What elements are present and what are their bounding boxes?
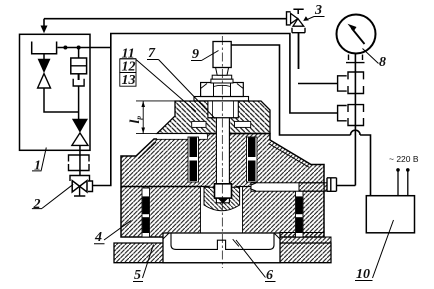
side port bolt hatched section [299, 183, 327, 191]
check valve right (filled+open triangles) [72, 119, 88, 133]
seat collar (hatched) [204, 187, 240, 211]
wire to pump [78, 48, 80, 59]
node dot B [77, 46, 81, 50]
nut top chamfer arcs [201, 84, 244, 89]
left outer seal channel [142, 188, 150, 237]
vent valve 3 lower bracket [292, 28, 305, 33]
right outer seal rings (black) [296, 196, 303, 214]
vent valve 3 left bracket [287, 12, 291, 25]
hex nut [201, 83, 244, 97]
gauge needle [352, 28, 365, 44]
press base plate 5 (hatched) [114, 243, 331, 263]
gap under cap [157, 134, 207, 139]
side port bolt head [327, 178, 337, 192]
suction line from tank [58, 47, 111, 49]
nut face lines [214, 83, 231, 97]
bottom insert 6 (white cup) [163, 233, 280, 263]
ferrule [216, 68, 229, 76]
press stem (white) [216, 118, 229, 203]
dimension lp arrow line [142, 101, 144, 134]
svg-text:7: 7 [148, 46, 156, 61]
svg-text:4: 4 [94, 230, 102, 245]
body joint line left [121, 186, 209, 188]
stem shoulder steps [208, 117, 238, 119]
top cap gland (hatched) [157, 101, 270, 134]
vent valve 3 triangles [291, 13, 298, 23]
insert chamfers [163, 233, 280, 246]
manifold line [354, 54, 356, 186]
left inner seal channel [188, 137, 199, 182]
svg-text:~ 220 В: ~ 220 В [389, 154, 419, 164]
collar flange [212, 75, 232, 79]
right inner seal channel [247, 137, 258, 182]
control box 10 [366, 196, 414, 233]
arrow into box 1 [43, 19, 45, 27]
wire pump to check valve [78, 86, 80, 119]
wire P1: valve 2 to manifold [93, 34, 338, 186]
slope inner line right [269, 144, 310, 168]
insert cup interior [171, 233, 274, 249]
left gland pocket [192, 121, 206, 127]
vent valve 3 outlet stem [298, 33, 300, 69]
hand pump cylinder [71, 58, 87, 74]
svg-text:6: 6 [266, 268, 273, 283]
stem tip block [215, 184, 232, 198]
left outer seal rings (black) [143, 196, 150, 214]
wire check valve to coupling [79, 145, 81, 156]
bolt shank (white) [208, 101, 238, 118]
relief valve 2 right port [88, 181, 93, 192]
check valve left (filled+open triangles) [38, 59, 51, 73]
base right shoulder [280, 233, 331, 244]
right outer seal channel [296, 188, 304, 237]
label 13 box [120, 73, 136, 87]
side port bolt hole [251, 183, 324, 191]
wire hop to box 10 [360, 135, 370, 196]
coupling 1 side bracket [338, 76, 347, 91]
side port bolt tip [251, 183, 256, 191]
pump piston rod [78, 74, 80, 80]
top supply wire to valve 3 [44, 18, 287, 20]
coupling 2 upper claw [348, 105, 364, 112]
mains terminals [396, 168, 400, 172]
coupling 1 upper claw [348, 72, 364, 79]
centerline [221, 36, 223, 268]
svg-text:8: 8 [379, 55, 386, 70]
stem bore (white) [201, 187, 243, 233]
body joint line right [236, 186, 251, 188]
collar ring [211, 79, 233, 83]
stem tip cone [218, 198, 229, 203]
pressure gauge 8 [337, 15, 376, 54]
supply box 1 outline [20, 34, 91, 150]
svg-text:3: 3 [314, 3, 322, 18]
svg-text:2: 2 [33, 197, 41, 212]
coupling 2 lower claw [348, 118, 364, 126]
wire manifold to press port [337, 185, 356, 187]
wire vent valve to coupling 1 [298, 83, 338, 85]
wire check valve to tee [44, 88, 79, 112]
svg-text:5: 5 [134, 268, 141, 283]
relief valve 2 top bracket [70, 176, 90, 182]
right gland pocket [235, 121, 251, 127]
relief valve 2 drain [74, 186, 85, 196]
svg-text:9: 9 [192, 47, 199, 62]
coupling 1 lower claw [348, 86, 364, 94]
vent valve 3 handle [293, 9, 303, 14]
sensor 9 body [213, 42, 231, 68]
wire tank to check valve [43, 54, 45, 59]
gauge stem bracket [346, 55, 365, 63]
dimension lp extension lines [136, 101, 188, 134]
sensor cable wire P2 [231, 45, 350, 135]
press body (item 4/5 housing, hatched) [121, 134, 324, 238]
node dot A [63, 46, 67, 50]
washer plate [194, 97, 249, 101]
labels 11-13 leader [120, 59, 196, 112]
left inner seal rings (black) [190, 138, 198, 158]
relief valve 2 bowtie [72, 181, 79, 192]
coupling below box 1 [69, 155, 90, 162]
pump rod guide [73, 79, 84, 86]
shank inner lines [213, 101, 234, 118]
tank [32, 42, 57, 54]
svg-text:10: 10 [356, 267, 370, 282]
coupling 2 side bracket [338, 106, 347, 121]
label 12 box [120, 59, 136, 73]
crossover hop [351, 130, 361, 135]
right inner seal rings (black) [248, 138, 256, 158]
slope inner line left [139, 142, 157, 159]
mains wires [398, 170, 408, 196]
svg-text:13: 13 [122, 73, 136, 88]
